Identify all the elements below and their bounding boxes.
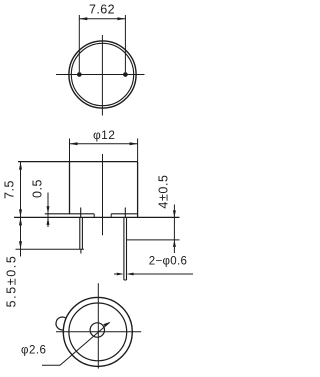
svg-text:5.5±0.5: 5.5±0.5	[5, 255, 19, 308]
svg-text:φ12: φ12	[93, 128, 115, 142]
svg-text:φ2.6: φ2.6	[21, 345, 46, 357]
svg-text:4±0.5: 4±0.5	[157, 174, 171, 208]
svg-text:7.5: 7.5	[3, 180, 17, 199]
svg-text:7.62: 7.62	[89, 2, 115, 16]
svg-text:2−φ0.6: 2−φ0.6	[149, 256, 187, 268]
svg-text:0.5: 0.5	[31, 179, 45, 198]
